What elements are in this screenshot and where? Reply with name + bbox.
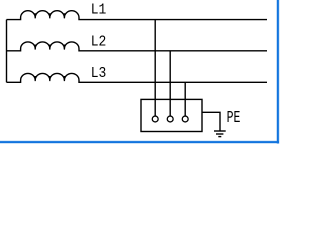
wire drop 2 from L2 to terminal 2	[169, 51, 171, 116]
coil L3 cusp ticks	[35, 76, 64, 81]
terminal circle 1	[152, 116, 158, 122]
terminal circle 3	[182, 116, 188, 122]
svg-text:L3: L3	[91, 67, 107, 83]
wire drop 1 from L1 to terminal 1	[154, 20, 156, 116]
wire drop 3 from L3 to terminal 3	[184, 82, 186, 116]
inductor L1 (phase wire with coil)	[7, 11, 268, 20]
svg-text:L1: L1	[91, 3, 107, 19]
wire bus left vertical	[6, 20, 8, 83]
inductor L3 (phase wire with coil)	[7, 73, 268, 82]
ground bar 3	[218, 136, 221, 138]
wire from box to ground	[202, 112, 220, 131]
ground bar 2	[216, 133, 223, 135]
window border right (blue)	[277, 0, 279, 143]
window border bottom glow (blue)	[0, 141, 279, 144]
svg-text:L2: L2	[91, 35, 107, 51]
inductor L2 (phase wire with coil)	[7, 42, 268, 51]
device box	[141, 99, 202, 131]
coil L2 cusp ticks	[35, 45, 64, 50]
window border right glow (blue)	[276, 0, 279, 144]
coil L1 cusp ticks	[35, 13, 64, 18]
svg-text:PE: PE	[227, 109, 241, 128]
ground bar 1	[214, 130, 226, 132]
terminal circle 2	[167, 116, 173, 122]
window border bottom (blue)	[0, 141, 279, 143]
